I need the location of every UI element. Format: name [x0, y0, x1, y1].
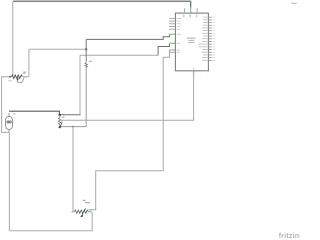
speaker SP1 body — [17, 77, 24, 82]
label: R4 designator — [89, 61, 92, 62]
resistor R4 vertical zigzag — [85, 63, 87, 68]
IC U1 right pin stubs — [208, 17, 211, 60]
node: R1 left terminal junction — [9, 76, 11, 78]
wire: speaker right terminal up to diagonal feed — [28, 49, 30, 76]
node: junction on R4 vertical — [85, 48, 87, 50]
wire: green end at IC left pin 1 — [169, 33, 176, 35]
label: R2 designator — [62, 117, 65, 118]
wire: IC top pin drop — [190, 1, 192, 7]
wire: green right terminal of R1 / speaker pin — [23, 76, 27, 78]
wire: green left terminal of R1 — [9, 76, 12, 78]
IC U1 top pin inside labels — [183, 15, 185, 18]
label: R3 value — [85, 202, 90, 203]
IC U1 bottom pin inside label — [193, 67, 194, 70]
wire: green bottom terminal of R2 — [59, 125, 61, 127]
wire: green top terminal of R4 — [85, 61, 87, 62]
speaker SP1 arrow — [17, 78, 19, 80]
wire: branch down from pin2 net to R2 top rail — [79, 55, 81, 114]
microphone MIC1 electrodes — [7, 121, 9, 123]
wire: IC reset pin staircase to R4 vertical — [86, 34, 169, 39]
wire: top rail from R1 net to IC top pin — [13, 0, 191, 2]
label: MIC1 designator — [13, 114, 15, 115]
potentiometer R3 zigzag — [74, 210, 88, 213]
wire: green end at IC left pin 3 — [169, 49, 176, 51]
wire: green left terminal of R3 — [72, 211, 75, 213]
resistor R2 vertical zigzag — [59, 118, 61, 125]
wire: dark link to R2 top junction — [60, 114, 81, 116]
wire: horizontal from speaker net to R4 junction — [29, 48, 86, 50]
label: R3 designator — [83, 200, 86, 201]
wire: from R1 left terminal to far-left vertical — [2, 77, 10, 133]
wire: left vertical from top rail down to R1 left terminal — [12, 1, 14, 76]
wire: down to pot R3 left terminal — [72, 127, 74, 212]
IC U1 center label — [187, 38, 196, 44]
wire: wiper elbow of R2 to long horizontal — [61, 120, 63, 123]
wire: IC left pin 3 down jog — [89, 50, 169, 210]
wire: long horizontal wiper net to IC bottom pin — [62, 77, 194, 120]
label: R1 designator — [23, 72, 26, 73]
wire: horizontal pin2 net — [80, 54, 158, 56]
label: R1 value — [8, 80, 11, 81]
label: corner note top right — [291, 3, 296, 4]
wire: green top terminal of R2 — [59, 116, 61, 118]
potentiometer R3 wiper arrow — [82, 209, 86, 215]
wire: mic plus to R2 top junction — [9, 111, 59, 114]
wire: bottom rail — [9, 212, 92, 231]
wire: green bottom terminal of R4 — [85, 68, 87, 71]
wire: green terminal mic plus — [8, 113, 10, 117]
IC U1 left pin inside labels — [177, 18, 182, 53]
wire: below R4 down to wiper net corner — [60, 70, 86, 126]
IC U1 right pin numbers — [213, 17, 216, 61]
wire: green wire-end above pot right terminal — [89, 209, 93, 211]
wire: mic minus down to bottom rail — [8, 132, 10, 230]
IC U1 left pin stubs — [169, 18, 175, 52]
wire: green end at IC top pin VCC — [190, 7, 192, 13]
node: T junction to pot R3 left feed — [72, 126, 74, 128]
IC U1 right pin inside labels — [198, 17, 208, 61]
wire: green terminal mic minus — [8, 129, 10, 132]
node: R2 top terminal junction — [59, 114, 61, 116]
svg-text:fritzing: fritzing — [279, 233, 300, 240]
wire: green end at IC left pin 2 — [169, 42, 176, 44]
IC U1 ATmega body — [175, 13, 208, 71]
microphone MIC1 body — [6, 116, 13, 129]
wire: green right terminal of R3 — [88, 211, 91, 213]
wiper arrow of R2 — [61, 123, 62, 125]
wire: vertical above R4 — [85, 39, 87, 61]
IC U1 top pin stubs — [184, 8, 186, 13]
resistor R1 horizontal zigzag — [11, 75, 22, 79]
wire: R1 right green to corner stub — [26, 76, 29, 78]
node: R2 bottom terminal — [59, 126, 61, 128]
wire: green end at IC bottom pin — [193, 71, 195, 78]
wire: staircase up to IC left pin 2 — [158, 43, 169, 55]
